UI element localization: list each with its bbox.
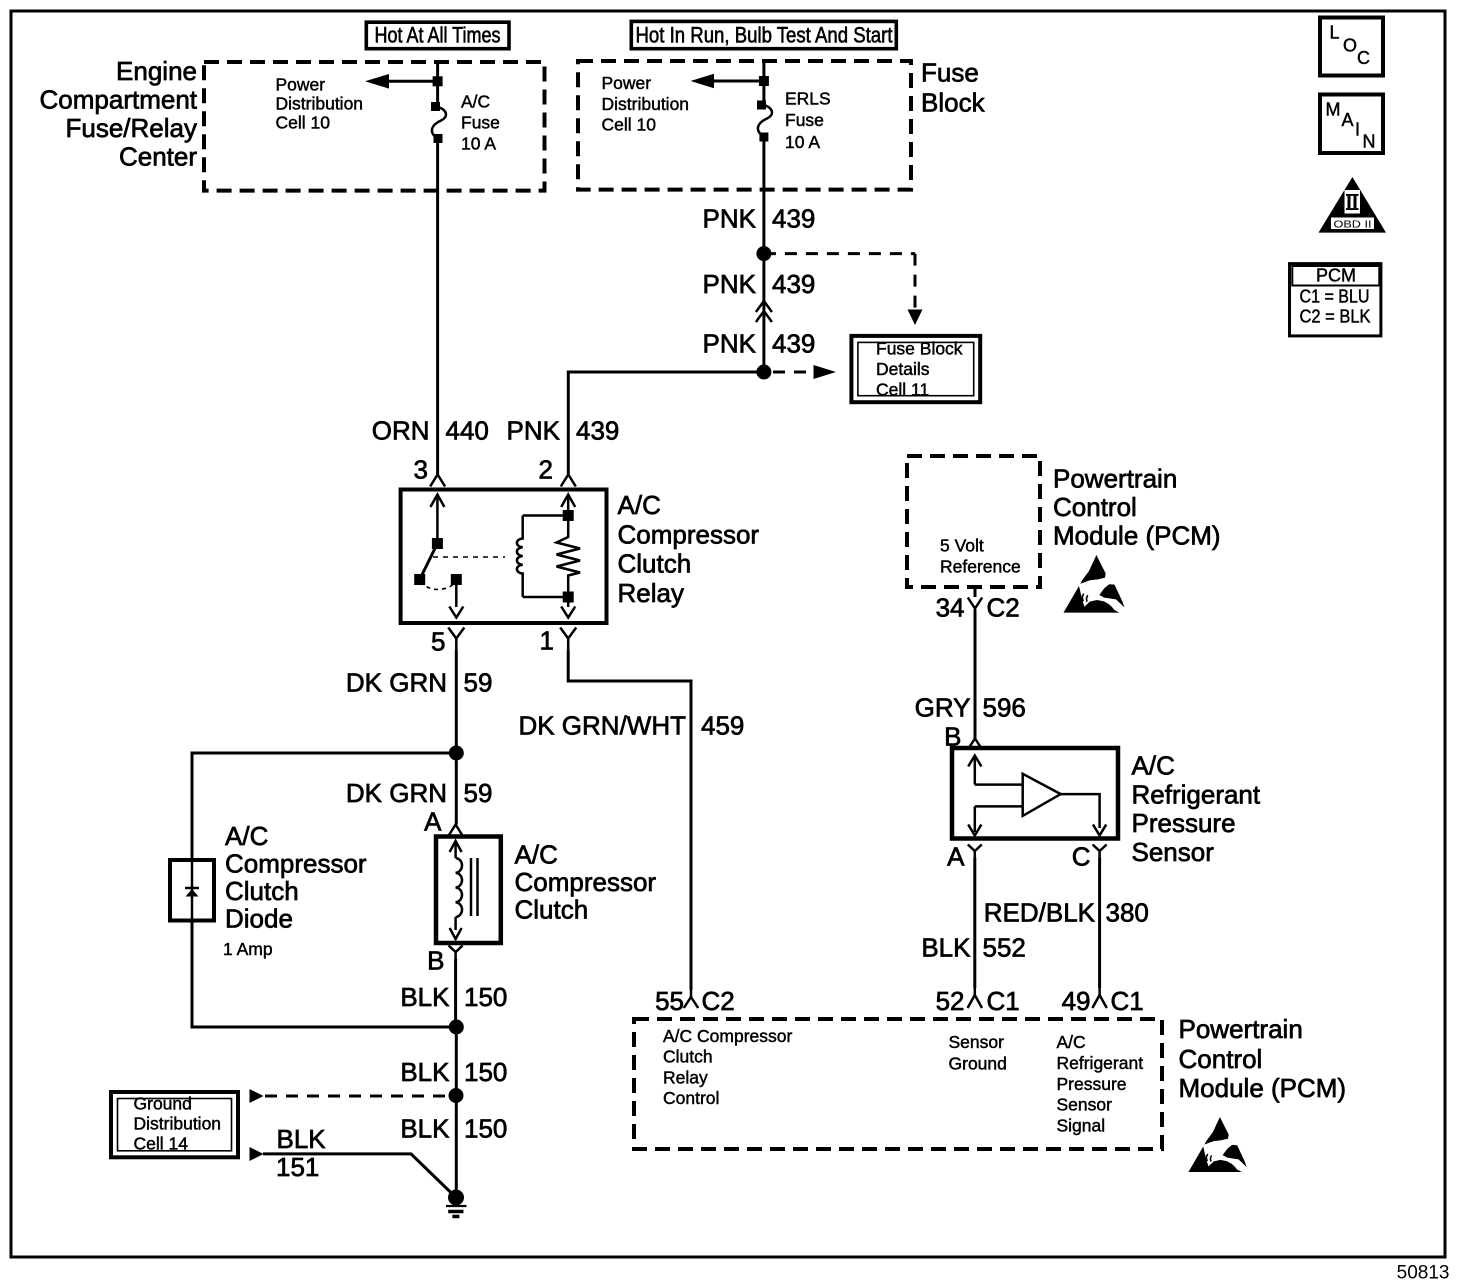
label: ERLS Fuse 10 A xyxy=(785,89,831,153)
dashed box: Powertrain Control Module (PCM) lower xyxy=(634,1019,1162,1149)
label: A/C Compressor Clutch Diode xyxy=(225,821,367,934)
box: Ground Distribution Cell 14 xyxy=(111,1092,238,1157)
label: BLK 552 xyxy=(921,933,1026,963)
label: Powertrain Control Module (PCM) upper xyxy=(1053,464,1221,551)
svg-text:Fuse: Fuse xyxy=(921,58,979,88)
svg-text:439: 439 xyxy=(772,269,815,299)
pin C connector Y (sensor) xyxy=(1093,845,1107,858)
relay coil winding xyxy=(517,516,523,598)
svg-text:Refrigerant: Refrigerant xyxy=(1132,780,1261,810)
svg-text:150: 150 xyxy=(464,1057,507,1087)
svg-text:B: B xyxy=(427,946,444,976)
svg-text:Ground: Ground xyxy=(949,1054,1007,1074)
wire: from dashed box top to A/C fuse xyxy=(436,62,439,107)
svg-text:150: 150 xyxy=(464,1114,507,1144)
wire: DK GRN 59 down to clutch pin A xyxy=(455,753,458,825)
label: Sensor Ground xyxy=(949,1032,1007,1074)
sensor internal supply arrow up xyxy=(968,756,981,833)
svg-text:Powertrain: Powertrain xyxy=(1053,464,1177,494)
svg-text:DK GRN: DK GRN xyxy=(346,668,447,698)
svg-text:Distribution: Distribution xyxy=(276,94,364,114)
pin A connector chevron xyxy=(448,825,463,837)
label: Power Distribution Cell 10 (right box) xyxy=(602,73,690,135)
svg-text:BLK: BLK xyxy=(921,933,971,963)
label: Power Distribution Cell 10 (left box) xyxy=(276,75,364,133)
svg-text:Control: Control xyxy=(663,1088,719,1108)
svg-text:Distribution: Distribution xyxy=(134,1114,222,1134)
fuse F2 ERLS Fuse 10A symbol xyxy=(757,101,772,142)
dashed box: Fuse Block cell xyxy=(578,61,911,190)
svg-text:Ground: Ground xyxy=(134,1094,192,1114)
relay coil top junction square xyxy=(563,510,574,521)
wire: from dashed box top to ERLS fuse xyxy=(762,61,765,105)
svg-text:459: 459 xyxy=(701,711,744,741)
node: junction dot at PNK splice to fuse block details xyxy=(756,246,771,261)
pin B connector chevron (sensor) xyxy=(968,739,982,750)
sensor U1 A/C Refrigerant Pressure Sensor box xyxy=(952,748,1118,839)
svg-text:Sensor: Sensor xyxy=(1057,1095,1113,1115)
label: A/C Compressor Clutch xyxy=(515,840,657,925)
svg-text:O: O xyxy=(1343,36,1357,56)
node: BLK splice with diode branch xyxy=(449,1020,464,1035)
svg-text:C1 = BLU: C1 = BLU xyxy=(1300,287,1370,307)
svg-text:Cell 10: Cell 10 xyxy=(276,113,331,133)
svg-text:Clutch: Clutch xyxy=(618,549,692,579)
svg-text:Clutch: Clutch xyxy=(663,1047,713,1067)
icon box: MAIN xyxy=(1320,95,1383,154)
svg-text:PNK: PNK xyxy=(703,329,757,359)
wire: RED/BLK 380 from pin C to PCM pin 49 xyxy=(1098,858,1101,989)
relay switch throw contact square (left) xyxy=(414,574,425,585)
svg-text:Sensor: Sensor xyxy=(949,1032,1005,1052)
pin 49 connector lambda xyxy=(1092,988,1106,1008)
svg-text:Compressor: Compressor xyxy=(618,519,760,549)
svg-text:Engine: Engine xyxy=(116,56,197,86)
label: A/C Refrigerant Pressure Sensor xyxy=(1132,751,1261,868)
svg-text:A/C: A/C xyxy=(1132,751,1175,781)
ESD sensitive device symbol (lower) xyxy=(1188,1117,1246,1172)
icon box: LOC xyxy=(1320,18,1383,76)
junction square at A/C fuse wire top xyxy=(433,76,443,86)
svg-text:L: L xyxy=(1330,23,1340,43)
clutch L1 A/C Compressor Clutch box xyxy=(436,837,501,944)
wire: BLK 552 from pin A to PCM pin 52 xyxy=(973,858,976,989)
wire: PNK 439 vertical from ERLS fuse to junction xyxy=(762,137,765,373)
svg-text:Fuse: Fuse xyxy=(785,110,824,130)
svg-text:PCM: PCM xyxy=(1316,266,1356,286)
svg-text:A/C Compressor: A/C Compressor xyxy=(663,1026,793,1046)
pin A connector Y (sensor) xyxy=(968,845,982,858)
wire: diode branch down to BLK splice xyxy=(192,919,456,1027)
svg-text:Center: Center xyxy=(119,142,197,172)
op-amp triangle inside sensor xyxy=(1023,774,1061,816)
arrowhead from ground distribution (BLK 151) xyxy=(250,1147,264,1161)
wire: branch to diode (left) xyxy=(192,753,456,862)
svg-text:A/C: A/C xyxy=(515,840,558,870)
label: DK GRN 59 (lower) xyxy=(346,778,493,808)
svg-text:Pressure: Pressure xyxy=(1057,1074,1127,1094)
svg-text:I: I xyxy=(1355,120,1360,140)
relay switch output contact square xyxy=(451,574,462,585)
arrowhead pointing right to Fuse Block Details xyxy=(814,365,837,379)
svg-text:Hot In Run, Bulb Test And Star: Hot In Run, Bulb Test And Start xyxy=(636,22,893,47)
svg-text:34: 34 xyxy=(936,593,965,623)
pin 5 connector Y xyxy=(448,628,464,651)
svg-text:C2: C2 xyxy=(702,986,735,1016)
label: 5 Volt Reference xyxy=(940,536,1021,577)
svg-text:Fuse/Relay: Fuse/Relay xyxy=(66,113,198,143)
label: PNK 439 (at relay pin 2) xyxy=(507,416,620,446)
svg-text:55: 55 xyxy=(655,986,684,1016)
arrowhead from ground distribution (dashed branch) xyxy=(250,1089,264,1103)
svg-text:Distribution: Distribution xyxy=(602,94,690,114)
svg-text:Details: Details xyxy=(876,359,930,379)
svg-text:DK GRN: DK GRN xyxy=(346,778,447,808)
label: DK GRN/WHT 459 xyxy=(518,711,744,741)
relay coil actuation dashed link xyxy=(433,556,505,558)
svg-text:49: 49 xyxy=(1062,986,1091,1016)
label box: Hot In Run, Bulb Test And Start xyxy=(631,21,896,48)
relay switch output wire and exit arrow (to pin 5) xyxy=(449,585,463,618)
wire: PNK 439 horizontal then down to relay pin 2 xyxy=(568,372,764,474)
relay switch blade xyxy=(420,544,438,580)
svg-text:2: 2 xyxy=(539,455,553,485)
label: Fuse Block xyxy=(921,58,986,118)
svg-text:Fuse: Fuse xyxy=(461,113,500,133)
wire through diode box xyxy=(191,862,194,919)
sensor output wire and arrow to pin C xyxy=(1061,794,1107,835)
svg-text:Clutch: Clutch xyxy=(225,876,299,906)
label: PNK 439 (third) xyxy=(703,329,816,359)
svg-text:BLK: BLK xyxy=(277,1124,327,1154)
svg-text:Clutch: Clutch xyxy=(515,895,589,925)
svg-text:Sensor: Sensor xyxy=(1132,837,1215,867)
arrowhead pointing left (right box) xyxy=(691,74,715,89)
label: A/C Compressor Clutch Relay xyxy=(618,490,760,608)
label: ORN 440 xyxy=(372,416,489,446)
wire: ORN 440 from fuse down to relay pin 3 xyxy=(436,139,439,475)
dashed box: Engine Compartment Fuse/Relay Center cell xyxy=(204,62,545,191)
svg-text:Cell 11: Cell 11 xyxy=(876,380,929,400)
svg-text:1 Amp: 1 Amp xyxy=(223,939,273,959)
svg-text:Module (PCM): Module (PCM) xyxy=(1053,521,1221,551)
svg-text:RED/BLK: RED/BLK xyxy=(984,898,1096,928)
dashed box: 5 Volt Reference (PCM) xyxy=(907,456,1040,587)
pin 55 connector lambda xyxy=(684,990,698,1008)
label: PNK 439 (second) xyxy=(703,269,816,299)
svg-text:GRY: GRY xyxy=(915,693,971,723)
legend box: PCM connectors xyxy=(1290,264,1381,336)
flow chevrons on PNK wire xyxy=(756,301,772,322)
label: DK GRN 59 (upper) xyxy=(346,668,493,698)
wire: power distribution arrow branch (right box) xyxy=(714,80,759,83)
svg-text:Compressor: Compressor xyxy=(515,867,657,897)
node: splice junction dot DK GRN xyxy=(449,746,464,761)
relay coil top lead xyxy=(523,514,569,517)
wire: dashed link to ground distribution xyxy=(265,1095,448,1098)
label: A/C Compressor Clutch Relay Control xyxy=(663,1026,793,1108)
svg-text:C1: C1 xyxy=(1111,986,1144,1016)
label: BLK 150 (first) xyxy=(400,982,507,1012)
svg-text:5: 5 xyxy=(431,627,445,657)
pin B connector Y xyxy=(449,946,463,959)
relay pin 2 entry arrow xyxy=(561,495,575,513)
svg-text:A: A xyxy=(947,842,965,872)
arrowhead pointing down into Fuse Block Details xyxy=(908,310,923,326)
resistor R1 inside relay xyxy=(557,521,581,592)
label: BLK 150 (second) xyxy=(400,1057,507,1087)
svg-text:DK GRN/WHT: DK GRN/WHT xyxy=(518,711,686,741)
relay switch pivot square xyxy=(432,538,443,549)
svg-text:Pressure: Pressure xyxy=(1132,808,1236,838)
svg-text:10 A: 10 A xyxy=(785,132,820,152)
wire: dashed branch right then down to details arrow xyxy=(764,254,915,308)
wire: BLK 151 to ground point xyxy=(263,1154,456,1198)
box: Fuse Block Details Cell 11 xyxy=(851,336,980,402)
label: A/C Fuse 10 A xyxy=(461,92,500,154)
svg-text:439: 439 xyxy=(576,416,619,446)
diode D1 symbol xyxy=(185,888,199,897)
relay K1 A/C Compressor Clutch Relay box xyxy=(401,490,607,624)
svg-text:A: A xyxy=(1342,110,1354,130)
svg-text:Control: Control xyxy=(1179,1044,1263,1074)
svg-text:150: 150 xyxy=(464,982,507,1012)
svg-text:Relay: Relay xyxy=(663,1068,708,1088)
svg-text:439: 439 xyxy=(772,204,815,234)
ground G1 symbol xyxy=(446,1190,467,1217)
wire: DK GRN 59 from pin 5 down to splice xyxy=(455,650,458,753)
node: junction dot at PNK corner to relay xyxy=(756,365,771,380)
fuse F1 A/C Fuse 10A symbol xyxy=(431,102,446,143)
svg-text:C2: C2 xyxy=(987,593,1020,623)
svg-text:Compressor: Compressor xyxy=(225,849,367,879)
relay switch arm entry arrow (pin 3) xyxy=(430,495,444,541)
sensor amp input branches xyxy=(975,785,1023,807)
svg-text:A/C: A/C xyxy=(1057,1032,1086,1052)
svg-text:OBD II: OBD II xyxy=(1334,218,1372,230)
svg-text:ORN: ORN xyxy=(372,416,430,446)
svg-text:596: 596 xyxy=(983,693,1026,723)
svg-text:A/C: A/C xyxy=(461,92,490,112)
sensor internal arrow down to pin A xyxy=(968,825,981,836)
svg-text:50813: 50813 xyxy=(1397,1263,1450,1284)
relay coil bottom junction square xyxy=(563,592,574,603)
svg-text:PNK: PNK xyxy=(703,204,757,234)
svg-text:Fuse Block: Fuse Block xyxy=(876,339,963,359)
svg-text:PNK: PNK xyxy=(507,416,561,446)
pin 34 connector lambda xyxy=(968,598,982,616)
wire: BLK 150 from pin B to splice xyxy=(454,959,457,1028)
svg-text:5 Volt: 5 Volt xyxy=(940,536,984,556)
pin 2 connector chevron xyxy=(561,475,576,487)
svg-text:C2 = BLK: C2 = BLK xyxy=(1300,307,1371,327)
relay pin 1 exit arrow xyxy=(561,603,575,618)
svg-text:A/C: A/C xyxy=(618,490,661,520)
svg-text:440: 440 xyxy=(446,416,489,446)
svg-text:C: C xyxy=(1357,48,1370,68)
label: Powertrain Control Module (PCM) lower xyxy=(1179,1014,1347,1103)
svg-text:BLK: BLK xyxy=(400,1114,450,1144)
label: BLK 151 xyxy=(276,1124,326,1182)
svg-text:Diode: Diode xyxy=(225,904,293,934)
clutch core double bars xyxy=(471,858,478,916)
diode D1 A/C Compressor Clutch Diode box xyxy=(170,860,214,921)
label: RED/BLK 380 xyxy=(984,898,1149,928)
svg-text:A: A xyxy=(424,807,442,837)
svg-text:Signal: Signal xyxy=(1057,1116,1106,1136)
label: Engine Compartment Fuse/Relay Center xyxy=(40,56,198,172)
label: GRY 596 xyxy=(915,693,1026,723)
arrowhead pointing left (left box) xyxy=(365,74,389,89)
junction square at ERLS fuse wire top xyxy=(759,76,769,86)
svg-text:ERLS: ERLS xyxy=(785,89,831,109)
pin 3 connector chevron xyxy=(430,475,445,487)
wire: GRY 596 down to sensor pin B xyxy=(974,610,977,739)
wire: dashed arrow from junction to Fuse Block Details box xyxy=(773,371,813,374)
svg-text:Relay: Relay xyxy=(618,578,684,608)
wire: BLK 150 down to ground splice xyxy=(455,1027,458,1198)
svg-text:Module (PCM): Module (PCM) xyxy=(1179,1073,1347,1103)
svg-text:52: 52 xyxy=(936,986,965,1016)
svg-text:C1: C1 xyxy=(987,986,1020,1016)
svg-text:Refrigerant: Refrigerant xyxy=(1057,1053,1144,1073)
svg-text:Hot At All Times: Hot At All Times xyxy=(375,23,501,48)
svg-text:Power: Power xyxy=(276,75,326,95)
label box: Hot At All Times xyxy=(366,22,509,49)
svg-text:Powertrain: Powertrain xyxy=(1179,1014,1303,1044)
svg-text:1: 1 xyxy=(540,626,554,656)
svg-text:380: 380 xyxy=(1106,898,1149,928)
clutch exit arrow (pin B) xyxy=(450,917,462,939)
icon: OBD II triangle xyxy=(1319,177,1387,233)
svg-text:552: 552 xyxy=(983,933,1026,963)
pin 1 connector Y xyxy=(560,628,576,651)
wire: power distribution arrow branch (left box) xyxy=(389,80,433,83)
svg-text:PNK: PNK xyxy=(703,269,757,299)
svg-text:439: 439 xyxy=(772,329,815,359)
svg-text:BLK: BLK xyxy=(400,1057,450,1087)
svg-text:59: 59 xyxy=(464,778,493,808)
svg-text:10 A: 10 A xyxy=(461,134,496,154)
pin 52 connector lambda xyxy=(968,988,982,1008)
clutch coil winding xyxy=(456,858,462,917)
svg-text:C: C xyxy=(1072,842,1091,872)
svg-text:Cell 14: Cell 14 xyxy=(134,1134,189,1154)
svg-text:Compartment: Compartment xyxy=(40,85,198,115)
clutch entry arrow (pin A) xyxy=(450,841,462,858)
svg-text:M: M xyxy=(1326,100,1341,120)
label: PNK 439 (first) xyxy=(703,204,816,234)
svg-text:59: 59 xyxy=(464,668,493,698)
relay switch dashed throw arc xyxy=(420,583,457,590)
label: A/C Refrigerant Pressure Sensor Signal xyxy=(1057,1032,1144,1136)
node: junction dot to ground distribution xyxy=(449,1088,464,1103)
svg-text:Reference: Reference xyxy=(940,557,1021,577)
svg-text:A/C: A/C xyxy=(225,821,268,851)
relay coil bottom lead xyxy=(523,596,569,599)
label: BLK 150 (third) xyxy=(400,1114,507,1144)
svg-text:Block: Block xyxy=(921,88,986,118)
svg-text:3: 3 xyxy=(414,455,428,485)
svg-text:Cell 10: Cell 10 xyxy=(602,115,657,135)
svg-text:N: N xyxy=(1363,132,1376,152)
svg-text:Power: Power xyxy=(602,73,652,93)
svg-text:BLK: BLK xyxy=(400,982,450,1012)
wire: from 5V reference box to pin 34 xyxy=(974,587,977,597)
svg-text:151: 151 xyxy=(276,1152,319,1182)
ESD sensitive device symbol (upper) xyxy=(1064,555,1125,613)
wire: DK GRN/WHT 459 from pin 1 right and down xyxy=(568,650,691,990)
svg-text:Control: Control xyxy=(1053,492,1137,522)
